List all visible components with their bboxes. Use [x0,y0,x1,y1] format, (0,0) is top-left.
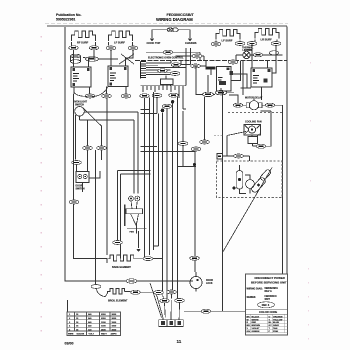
connector P2 [89,46,99,50]
wire H drops [178,97,205,253]
connector C1 [171,63,181,67]
connector B1 [83,146,93,150]
oven switch box4 [251,68,272,87]
svg-text:LR SURF: LR SURF [261,38,273,42]
cooling fan box [244,125,261,137]
wire RF box bottom drops [74,87,126,95]
wire broil right [140,291,153,293]
connector on bus [228,60,238,64]
left trunk wire [65,27,190,281]
svg-text:03/00: 03/00 [65,342,74,346]
junction dot H4 [193,163,196,166]
info box [246,274,288,335]
terminal cook top [150,39,154,42]
infinite switch feed cylinder [71,54,81,63]
connector B3 [72,161,82,165]
connector C4 [170,72,180,76]
wire RF legs [72,42,96,46]
oven lamp wires [152,30,190,38]
thermal limiter label [242,47,254,53]
wire table stub [67,300,69,312]
oven sensor plug [217,154,223,160]
connector I1 [143,257,153,261]
wire center horizontals [141,147,196,152]
connector P6 [235,42,245,46]
convection pin R [135,196,140,201]
connector B4 [69,200,79,204]
svg-text:REF 3: REF 3 [262,303,270,307]
oven light switch [75,107,102,127]
wire sensor trunk [222,91,224,253]
wire lever drop [101,127,103,161]
connector H1 [178,142,188,146]
wire door lock drop [189,253,246,312]
left broil feed [95,150,97,284]
convection twin wires [84,112,138,194]
diagram left dotted border [41,36,42,331]
connector K1 [154,291,164,295]
wire thermo row [236,55,283,61]
connector T1 [163,50,173,54]
connector row A1 [85,94,95,98]
terminal block [159,318,183,327]
svg-text:WIRING DIAG:: WIRING DIAG: [247,287,264,290]
svg-text:5995322961: 5995322961 [56,17,76,21]
connector row A3 [121,94,131,98]
wire j3 [97,289,106,297]
latch motor circle [246,180,255,189]
wire control drops [171,48,211,86]
convection pin L [129,196,134,201]
latch switch angled 2 [260,169,272,181]
wire motor row [229,95,283,105]
diagram top border [45,23,288,25]
wire to bake [74,204,108,258]
door switch label [76,186,85,191]
svg-text:LF SURF: LF SURF [222,39,233,43]
svg-text:SWITCH: SWITCH [76,188,85,190]
wire E row [196,66,234,94]
wire block feeds [171,300,189,318]
svg-text:DOOR: DOOR [206,280,213,282]
connector T3 [253,53,263,57]
big connector E2 [215,91,227,95]
svg-text:11: 11 [177,339,182,344]
wire box34 link [231,61,262,100]
convection cross [127,223,147,234]
oven light switch label [73,102,88,107]
door motor [246,101,262,110]
wire bake left feed [96,258,108,260]
wire door switch out [77,165,101,192]
connector row A2 [102,94,112,98]
latch switch angled [250,176,266,193]
svg-text:SERIES:: SERIES: [247,296,257,299]
wire box4 top [247,44,276,74]
control board connector block [141,62,147,79]
connector K2 [167,290,177,294]
svg-text:COLOR CODE: COLOR CODE [259,310,277,314]
connector F4 [234,154,244,158]
connector D5 [162,104,172,108]
svg-text:BAKE ELEMENT: BAKE ELEMENT [112,266,131,269]
svg-text:REV A: REV A [265,290,272,293]
latch resistor [236,171,243,190]
wire LF2 legs [216,41,240,43]
terminal chassis [188,39,192,42]
connector J2 [131,290,141,294]
svg-text:LOCK: LOCK [206,283,213,285]
bake element [107,255,139,263]
latch dashed box [217,161,283,198]
svg-text:COOK TOP: COOK TOP [147,41,161,45]
control board wires fan [146,63,206,75]
svg-text:COOLING FAN: COOLING FAN [245,121,262,124]
thermal limiter [243,51,250,58]
surface element RF [72,31,96,41]
wire light switch drop [76,115,103,160]
door lock motor [190,277,202,289]
right margin scan dots [308,62,311,339]
wire bake right [139,258,163,260]
connector F1 [233,103,243,107]
svg-text:WIRE: WIRE [68,334,74,336]
svg-text:WIRING DIAGRAM: WIRING DIAGRAM [156,17,193,22]
wire b1 stubs [87,151,89,172]
door switch box [76,172,89,183]
svg-text:SB/T: SB/T [265,298,271,301]
convection label vertical [124,205,126,227]
wire crossover X [119,54,134,64]
color code table [247,315,284,333]
diagram right border wire [286,27,288,275]
svg-text:WATT: WATT [101,333,107,336]
wire b5 down [120,253,122,259]
wire g1 right [211,310,223,312]
connector P9 [86,57,99,62]
svg-text:GAUGE: GAUGE [77,333,85,336]
big connector E1 [203,92,214,96]
wire LF box top [111,50,133,66]
connector D1 [140,94,150,98]
connector B5 [113,241,123,245]
wire control top row [146,52,204,60]
svg-text:FAN: FAN [130,231,135,234]
title model number text [156,13,195,22]
wire k drops [150,283,180,318]
middle pair verticals [118,171,151,254]
connector J3 [91,285,101,289]
svg-text:DOOR: DOOR [76,186,83,188]
wire fan area [227,132,256,157]
wire door lock [195,253,196,292]
svg-text:ELECTRONIC OVEN CONTROL: ELECTRONIC OVEN CONTROL [148,57,184,60]
wire LF legs [109,42,133,46]
ribbon verticals [141,92,187,299]
convection body [126,201,143,226]
left lamp trunk wire [73,94,75,200]
svg-text:BROIL ELEMENT: BROIL ELEMENT [108,300,128,303]
surface element LF [109,31,133,41]
connector P3 [106,46,116,50]
long diagonal wire [223,168,273,253]
svg-text:Publication No.: Publication No. [56,13,82,17]
connector P4 [128,46,138,50]
connector T2 [192,54,202,58]
dash stub [214,135,223,137]
connector P8 [271,42,281,46]
connector H2 [191,147,201,151]
broil element [106,289,131,297]
connector K3 [160,299,170,303]
terminal chassis 2 [136,249,140,252]
control comb bus [141,86,187,109]
broil row wire [66,280,194,282]
svg-text:DISCONNECT POWER: DISCONNECT POWER [255,276,285,280]
surface switch RF box [71,67,91,87]
svg-text:AMPS: AMPS [111,333,118,336]
connector D3 [169,93,179,97]
oven lamp [167,28,178,32]
wire A2 drop [106,98,108,255]
connector H3 [200,140,210,144]
main bus wire [135,60,287,62]
connector J1 [126,279,137,283]
svg-text:OVEN LIGHT: OVEN LIGHT [73,102,88,104]
oven switch box3 [217,67,233,92]
connector C3 [158,69,168,73]
wire box bottoms curve [74,87,108,97]
surface element LF2 [216,30,240,40]
right inner trunk wire [282,105,284,274]
ref oval stamp [258,302,275,308]
color code header [246,308,288,310]
svg-text:BEFORE SERVICING UNIT: BEFORE SERVICING UNIT [251,281,287,285]
junction dot D6 [161,109,165,113]
bottom left table [67,312,121,336]
wire latch area [240,165,251,194]
svg-text:VOLT: VOLT [89,334,95,336]
connector P5 [211,42,221,46]
connector T4 [269,51,279,55]
surface element RR [255,29,279,39]
door lock label [206,280,213,285]
svg-text:SWITCH: SWITCH [75,104,84,106]
control sub box [161,76,174,86]
connector F2 [265,103,275,107]
connector K4 [175,299,185,303]
wire RR legs [255,40,277,42]
wire bus left segment [83,58,118,60]
wire F4 [223,156,250,161]
junction dot D4 [171,100,174,103]
wire RF box top [74,50,95,67]
junction dot sensor [233,187,236,190]
wire fan out [261,111,272,146]
fuse rect [206,67,215,69]
wire to chassis arrow [138,231,140,248]
connector C2 [191,64,201,68]
connector G2 [190,256,200,260]
connector D2 [152,94,162,98]
connector P1 [69,46,79,50]
connector F3 [256,144,266,148]
svg-text:LF SURF: LF SURF [114,41,125,45]
connector B2 [97,146,107,150]
surface switch LF box [108,66,128,87]
connector P7 [247,42,257,46]
header publication number text [56,13,82,21]
dashed separator [228,112,282,114]
svg-text:CHASSIS: CHASSIS [185,41,197,45]
connector G1 [201,309,211,313]
cooling fan cap box [248,137,258,144]
svg-text:RF SURF: RF SURF [77,41,89,45]
